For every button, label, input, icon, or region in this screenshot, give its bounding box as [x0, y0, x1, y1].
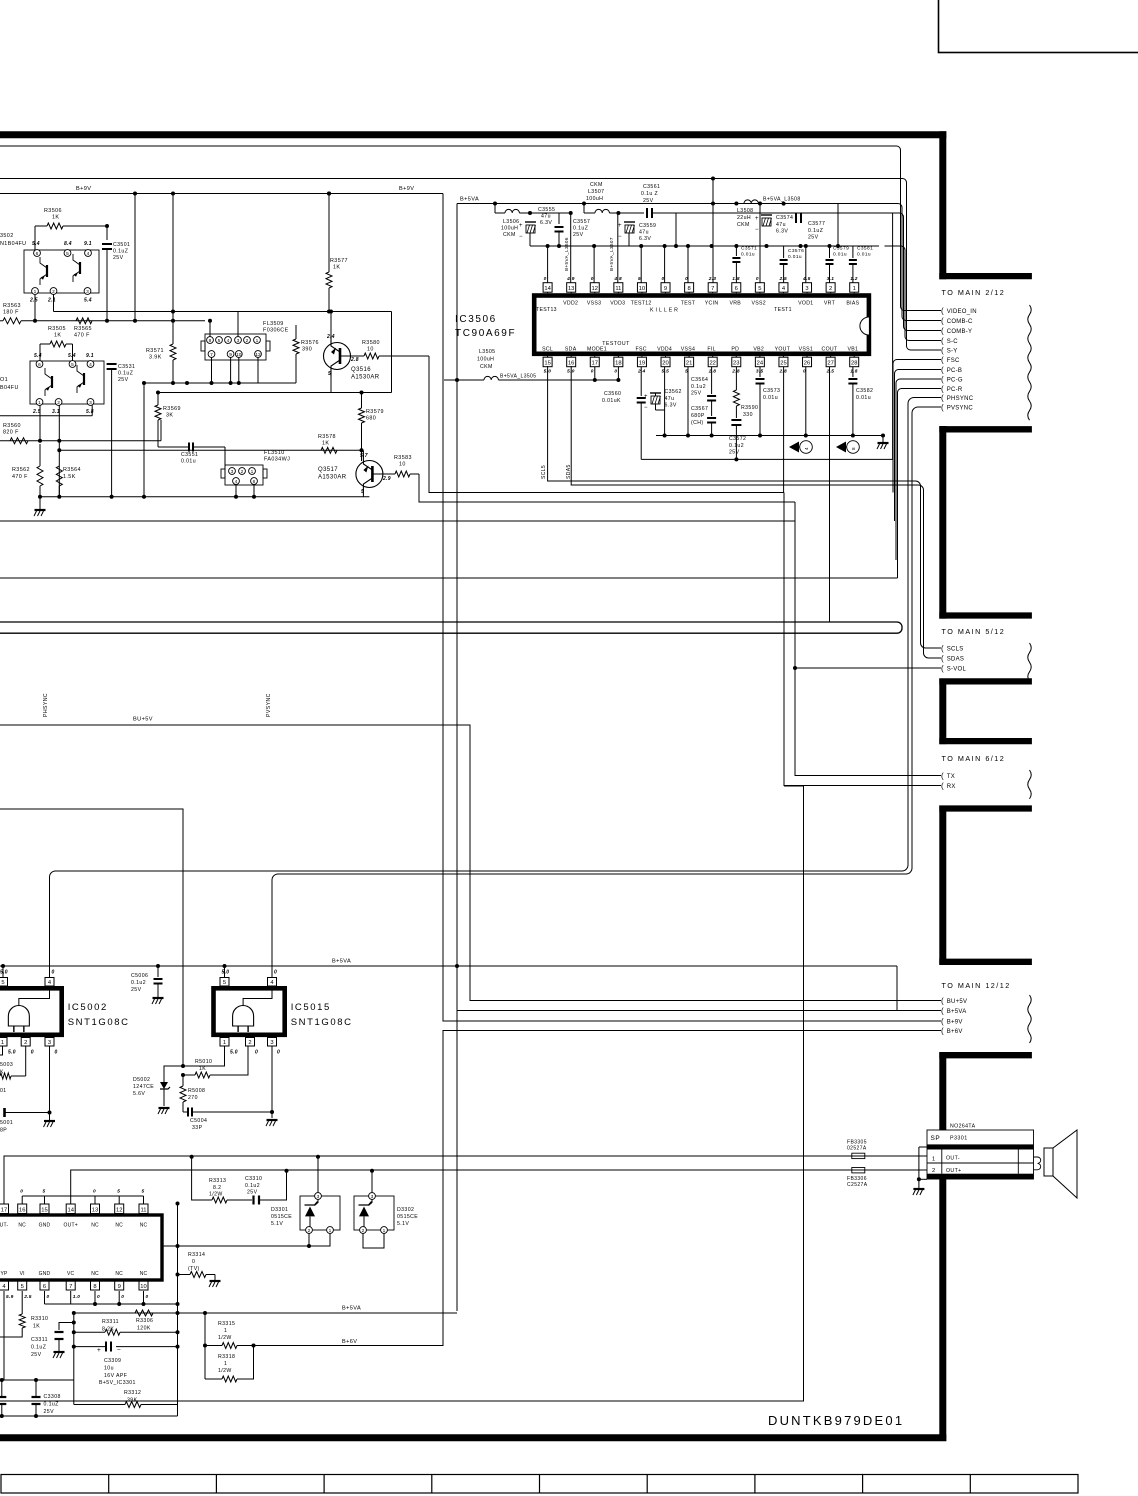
svg-text:VOD1: VOD1 [798, 301, 813, 307]
svg-text:B+5VA: B+5VA [332, 959, 351, 965]
svg-text:(: ( [941, 346, 944, 355]
svg-text:5.4: 5.4 [84, 298, 92, 304]
svg-text:3: 3 [270, 1040, 273, 1046]
svg-text:0: 0 [93, 1189, 96, 1195]
svg-text:NC: NC [91, 1271, 99, 1277]
svg-text:330: 330 [743, 412, 753, 418]
svg-text:270: 270 [188, 1095, 198, 1101]
svg-text:12: 12 [592, 286, 598, 292]
svg-text:R3560: R3560 [3, 423, 21, 429]
svg-text:TO MAIN 6/12: TO MAIN 6/12 [942, 754, 1006, 763]
svg-text:3: 3 [48, 1040, 51, 1046]
svg-text:FSC: FSC [636, 346, 647, 352]
svg-text:17: 17 [1, 1207, 7, 1213]
svg-text:C3309: C3309 [104, 1358, 121, 1364]
svg-text:TEST1: TEST1 [774, 307, 792, 313]
svg-text:2.5: 2.5 [23, 1294, 32, 1300]
svg-text:25V: 25V [247, 1190, 258, 1196]
svg-text:BU+5V: BU+5V [133, 717, 153, 723]
svg-text:2: 2 [246, 338, 249, 344]
svg-text:C3582: C3582 [856, 388, 873, 394]
svg-text:TEST12: TEST12 [631, 301, 652, 307]
svg-text:NC: NC [91, 1223, 99, 1229]
svg-text:C2527A: C2527A [847, 1182, 868, 1188]
svg-text:(CH): (CH) [691, 420, 704, 426]
svg-text:(: ( [941, 664, 944, 673]
svg-text:13: 13 [92, 1207, 98, 1213]
svg-text:OUT-: OUT- [946, 1156, 960, 1162]
svg-text:0.1u2: 0.1u2 [729, 443, 744, 449]
svg-text:3.1: 3.1 [827, 276, 835, 282]
svg-text:3: 3 [237, 338, 240, 344]
svg-text:5: 5 [758, 286, 761, 292]
svg-text:B+5VA_L3508: B+5VA_L3508 [763, 197, 801, 203]
svg-text:SNT1G08C: SNT1G08C [291, 1017, 353, 1028]
svg-text:47u: 47u [541, 214, 551, 220]
svg-text:13: 13 [568, 286, 574, 292]
svg-text:100uH: 100uH [477, 357, 494, 363]
svg-text:B+5VA_L3505: B+5VA_L3505 [500, 374, 536, 380]
svg-text:0: 0 [146, 1294, 149, 1300]
svg-text:3: 3 [86, 289, 89, 295]
svg-text:B+9V: B+9V [947, 1020, 963, 1026]
svg-text:4: 4 [235, 479, 238, 485]
svg-text:1247CE: 1247CE [133, 1084, 154, 1090]
svg-text:1: 1 [223, 1040, 226, 1046]
svg-text:VC: VC [67, 1271, 75, 1277]
svg-text:2.5: 2.5 [29, 298, 38, 304]
svg-text:0.01u: 0.01u [788, 254, 802, 260]
svg-text:01: 01 [0, 1088, 7, 1094]
svg-text:PC-B: PC-B [947, 368, 962, 374]
svg-text:C3560: C3560 [604, 391, 621, 397]
svg-text:5.9: 5.9 [6, 1294, 14, 1300]
svg-text:S-VOL: S-VOL [947, 667, 967, 673]
svg-text:B+5VA_L3506: B+5VA_L3506 [564, 237, 569, 271]
svg-text:9.1: 9.1 [84, 241, 92, 247]
svg-text:R3569: R3569 [163, 406, 181, 412]
svg-text:FIL: FIL [707, 346, 715, 352]
svg-text:25V: 25V [729, 450, 740, 456]
svg-text:3: 3 [317, 1194, 320, 1200]
svg-text:1/2W: 1/2W [218, 1335, 232, 1341]
svg-text:D5002: D5002 [133, 1077, 150, 1083]
svg-text:CKM: CKM [503, 232, 516, 238]
svg-text:R3312: R3312 [124, 1390, 141, 1396]
svg-text:(: ( [941, 317, 944, 326]
svg-text:0.1u2: 0.1u2 [131, 980, 146, 986]
svg-text:R3579: R3579 [366, 409, 384, 415]
svg-text:12: 12 [255, 352, 261, 358]
svg-text:R3562: R3562 [12, 467, 30, 473]
svg-text:C3311: C3311 [31, 1337, 48, 1343]
svg-text:R3577: R3577 [330, 258, 348, 264]
svg-text:2.8: 2.8 [350, 357, 359, 363]
svg-text:NC: NC [140, 1223, 148, 1229]
svg-text:(: ( [941, 1027, 944, 1036]
svg-text:C3555: C3555 [538, 207, 555, 213]
svg-text:1K: 1K [199, 1066, 206, 1072]
svg-text:2: 2 [57, 400, 60, 406]
svg-text:1K: 1K [322, 441, 329, 447]
svg-text:1K: 1K [52, 215, 59, 221]
svg-text:2: 2 [24, 1040, 27, 1046]
svg-text:IC3506: IC3506 [455, 314, 497, 325]
svg-text:VB2: VB2 [753, 346, 764, 352]
svg-text:TX: TX [947, 774, 955, 780]
svg-text:N1B04FU: N1B04FU [0, 241, 26, 247]
svg-text:O1: O1 [0, 377, 8, 383]
svg-text:0: 0 [614, 369, 617, 375]
svg-text:9: 9 [229, 352, 232, 358]
svg-text:5: 5 [218, 338, 221, 344]
svg-text:1: 1 [383, 1228, 386, 1234]
svg-text:R5010: R5010 [195, 1059, 212, 1065]
svg-text:680P: 680P [691, 413, 705, 419]
svg-text:5.0: 5.0 [567, 369, 575, 375]
svg-text:180 F: 180 F [3, 310, 19, 316]
svg-text:(: ( [941, 644, 944, 653]
svg-text:R3505: R3505 [48, 326, 66, 332]
svg-text:COMB-Y: COMB-Y [947, 329, 973, 335]
svg-text:12: 12 [116, 1207, 122, 1213]
svg-text:NC: NC [115, 1271, 123, 1277]
svg-text:D3302: D3302 [397, 1207, 414, 1213]
svg-text:C3579: C3579 [833, 246, 849, 252]
svg-text:VI: VI [20, 1271, 25, 1277]
svg-text:5: 5 [1, 980, 4, 986]
svg-text:(TV): (TV) [188, 1266, 200, 1272]
svg-text:C3572: C3572 [729, 436, 746, 442]
svg-text:PHSYNC: PHSYNC [43, 693, 49, 717]
svg-text:NC: NC [115, 1223, 123, 1229]
svg-text:3.9K: 3.9K [149, 355, 162, 361]
svg-text:47u: 47u [639, 230, 649, 236]
svg-text:0: 0 [277, 1050, 280, 1056]
svg-text:B+5VA: B+5VA [342, 1306, 361, 1312]
svg-text:(: ( [941, 772, 944, 781]
svg-text:B+9V: B+9V [76, 186, 91, 192]
svg-text:0: 0 [55, 1050, 58, 1056]
svg-text:2.8: 2.8 [731, 369, 740, 375]
svg-text:IC5002: IC5002 [68, 1002, 108, 1013]
svg-text:R3310: R3310 [31, 1316, 48, 1322]
svg-text:5.4: 5.4 [34, 353, 42, 359]
svg-text:R3315: R3315 [218, 1321, 235, 1327]
svg-text:4: 4 [87, 251, 90, 257]
svg-text:0.01u: 0.01u [741, 252, 755, 258]
svg-text:(: ( [941, 307, 944, 316]
svg-text:K: K [0, 1070, 4, 1076]
svg-text:14: 14 [544, 286, 551, 292]
svg-text:PC-R: PC-R [947, 387, 963, 393]
svg-text:9: 9 [118, 1284, 121, 1290]
svg-text:C3557: C3557 [573, 219, 590, 225]
svg-text:VRB: VRB [730, 301, 742, 307]
svg-text:PD: PD [731, 346, 739, 352]
svg-text:CKM: CKM [480, 364, 493, 370]
svg-text:6.3V: 6.3V [540, 220, 552, 226]
svg-text:0: 0 [121, 1294, 124, 1300]
svg-text:+: + [519, 223, 523, 229]
svg-text:OUT+: OUT+ [64, 1223, 78, 1229]
svg-text:0.1u Z: 0.1u Z [641, 191, 658, 197]
svg-text:C3567: C3567 [691, 406, 708, 412]
svg-text:VRT: VRT [824, 301, 836, 307]
svg-text:5: 5 [66, 251, 69, 257]
svg-text:CKM: CKM [737, 222, 750, 228]
svg-text:VDD2: VDD2 [563, 301, 578, 307]
svg-text:P3301: P3301 [950, 1136, 968, 1142]
svg-text:120K: 120K [137, 1326, 151, 1332]
svg-text:C5006: C5006 [131, 973, 148, 979]
svg-text:R3311: R3311 [102, 1319, 119, 1325]
svg-text:TO MAIN 2/12: TO MAIN 2/12 [942, 288, 1006, 297]
svg-text:Q3516: Q3516 [351, 367, 371, 373]
svg-text:C3531: C3531 [118, 364, 135, 370]
svg-text:PVSYNC: PVSYNC [947, 406, 974, 412]
svg-text:0: 0 [591, 369, 594, 375]
svg-text:C3308: C3308 [44, 1394, 61, 1400]
svg-text:C3551: C3551 [181, 452, 198, 458]
svg-text:(: ( [941, 385, 944, 394]
svg-text:D3301: D3301 [271, 1207, 288, 1213]
svg-text:YP: YP [0, 1271, 8, 1277]
svg-text:L3508: L3508 [737, 208, 753, 214]
svg-text:5.6V: 5.6V [133, 1091, 145, 1097]
svg-text:1: 1 [329, 1228, 332, 1234]
svg-text:4.5: 4.5 [802, 276, 811, 282]
svg-text:2: 2 [308, 1228, 311, 1234]
svg-text:(: ( [941, 782, 944, 791]
svg-text:0: 0 [274, 970, 277, 976]
svg-text:6: 6 [38, 362, 41, 368]
svg-text:14: 14 [67, 1207, 74, 1213]
svg-text:SCL5: SCL5 [541, 465, 547, 479]
svg-text:BU+5V: BU+5V [947, 999, 967, 1005]
svg-text:7: 7 [69, 1284, 72, 1290]
svg-text:1K: 1K [33, 1324, 40, 1330]
svg-text:(: ( [941, 1017, 944, 1026]
svg-text:0.1u2: 0.1u2 [245, 1183, 260, 1189]
svg-text:(: ( [941, 366, 944, 375]
svg-text:(: ( [941, 327, 944, 336]
svg-text:0.1uZ: 0.1uZ [31, 1345, 46, 1351]
svg-text:TO MAIN 5/12: TO MAIN 5/12 [942, 627, 1006, 636]
svg-text:R3506: R3506 [44, 208, 62, 214]
svg-text:B04FU: B04FU [0, 385, 19, 391]
svg-text:R3576: R3576 [301, 340, 319, 346]
svg-text:19: 19 [639, 361, 645, 367]
svg-text:L3507: L3507 [588, 189, 604, 195]
svg-text:DUNTKB979DE01: DUNTKB979DE01 [768, 1413, 904, 1428]
svg-text:VSS1: VSS1 [799, 346, 813, 352]
svg-text:3.1: 3.1 [52, 409, 60, 415]
svg-text:5.0: 5.0 [230, 1050, 238, 1056]
svg-text:1K: 1K [54, 333, 61, 339]
svg-text:NO264TA: NO264TA [950, 1124, 976, 1130]
svg-text:TEST13: TEST13 [536, 307, 557, 313]
svg-text:NC: NC [140, 1271, 148, 1277]
svg-text:16: 16 [19, 1207, 25, 1213]
svg-text:VSS2: VSS2 [751, 301, 765, 307]
svg-text:0: 0 [255, 1050, 258, 1056]
svg-text:0515CE: 0515CE [271, 1214, 292, 1220]
svg-text:0.01u: 0.01u [763, 395, 778, 401]
svg-text:5.1V: 5.1V [271, 1221, 283, 1227]
svg-text:5.0: 5.0 [544, 369, 552, 375]
svg-text:(: ( [941, 997, 944, 1006]
svg-text:GND: GND [39, 1271, 51, 1277]
svg-text:YOUT: YOUT [775, 346, 791, 352]
svg-text:2.1: 2.1 [47, 298, 56, 304]
svg-text:0.01u: 0.01u [833, 252, 847, 258]
svg-text:TC90A69F: TC90A69F [455, 328, 516, 339]
svg-text:1K: 1K [333, 265, 340, 271]
svg-text:1.0: 1.0 [73, 1294, 81, 1300]
svg-text:2.9: 2.9 [382, 476, 391, 482]
svg-text:C3573: C3573 [763, 388, 780, 394]
svg-text:20: 20 [662, 361, 668, 367]
svg-text:C3577: C3577 [808, 221, 825, 227]
svg-text:L3505: L3505 [479, 349, 495, 355]
svg-text:0: 0 [52, 970, 55, 976]
svg-text:8: 8 [851, 447, 856, 450]
svg-text:5: 5 [361, 489, 364, 495]
svg-text:4: 4 [89, 362, 92, 368]
svg-text:16V APF: 16V APF [104, 1373, 127, 1379]
svg-text:100uH: 100uH [501, 226, 518, 232]
svg-text:VB1: VB1 [848, 346, 859, 352]
svg-text:FL3510: FL3510 [264, 450, 285, 456]
svg-text:MODE1: MODE1 [587, 346, 607, 352]
svg-text:390: 390 [302, 347, 312, 353]
svg-text:B+5VA: B+5VA [947, 1009, 967, 1015]
svg-text:15: 15 [41, 1207, 47, 1213]
svg-text:4: 4 [227, 338, 230, 344]
svg-text:5001: 5001 [0, 1120, 13, 1126]
svg-text:VSS3: VSS3 [587, 301, 601, 307]
svg-text:A1530AR: A1530AR [351, 375, 380, 381]
svg-text:27: 27 [827, 361, 833, 367]
svg-text:02527A: 02527A [847, 1146, 867, 1152]
svg-text:(: ( [941, 403, 944, 412]
svg-text:0.1uZ: 0.1uZ [573, 226, 588, 232]
svg-text:0515CE: 0515CE [397, 1214, 418, 1220]
svg-text:B+5VA: B+5VA [460, 197, 479, 203]
svg-text:0.1uZ: 0.1uZ [118, 371, 133, 377]
svg-text:5: 5 [21, 1284, 24, 1290]
svg-text:8P: 8P [0, 1128, 7, 1134]
svg-text:16: 16 [568, 361, 574, 367]
svg-text:IC5015: IC5015 [291, 1002, 331, 1013]
svg-text:C3581: C3581 [857, 246, 873, 252]
svg-text:25V: 25V [691, 391, 702, 397]
svg-text:0.1uZ: 0.1uZ [113, 249, 128, 255]
svg-text:25V: 25V [573, 232, 584, 238]
svg-text:0.1uZ: 0.1uZ [808, 228, 823, 234]
svg-text:SP: SP [931, 1135, 941, 1142]
svg-text:8: 8 [687, 286, 690, 292]
svg-text:SDA5: SDA5 [566, 464, 572, 479]
svg-text:YCIN: YCIN [705, 301, 719, 307]
svg-text:5.0: 5.0 [222, 970, 230, 976]
svg-text:6.3V: 6.3V [776, 229, 788, 235]
svg-text:R3583: R3583 [394, 455, 412, 461]
svg-text:C3310: C3310 [245, 1176, 262, 1182]
svg-text:SDA: SDA [565, 346, 577, 352]
svg-text:PHSYNC: PHSYNC [947, 396, 974, 402]
svg-text:25: 25 [780, 361, 786, 367]
svg-text:6.3V: 6.3V [639, 236, 651, 242]
svg-text:0.01u: 0.01u [181, 459, 196, 465]
svg-text:2.4: 2.4 [326, 334, 335, 340]
svg-text:5.7: 5.7 [360, 453, 368, 459]
svg-text:R3590: R3590 [741, 405, 758, 411]
svg-text:R3571: R3571 [146, 348, 164, 354]
svg-text:15: 15 [544, 361, 550, 367]
svg-text:KILLER: KILLER [650, 308, 680, 314]
svg-text:FA034WJ: FA034WJ [264, 457, 290, 463]
svg-text:8.2: 8.2 [213, 1185, 221, 1191]
svg-text:3: 3 [231, 469, 234, 475]
svg-text:2.5: 2.5 [778, 276, 787, 282]
svg-text:7: 7 [711, 286, 714, 292]
svg-text:(: ( [941, 375, 944, 384]
svg-text:0: 0 [544, 276, 547, 282]
svg-text:2: 2 [241, 469, 244, 475]
svg-text:3K: 3K [166, 413, 173, 419]
svg-text:OUT+: OUT+ [946, 1168, 962, 1174]
svg-text:−: − [519, 234, 523, 240]
svg-text:1/2W: 1/2W [218, 1368, 232, 1374]
svg-text:S-Y: S-Y [947, 349, 958, 355]
svg-text:(: ( [941, 1007, 944, 1016]
svg-text:6: 6 [253, 479, 256, 485]
svg-text:1: 1 [256, 338, 259, 344]
svg-text:+: + [97, 1347, 101, 1354]
svg-text:5.4: 5.4 [68, 353, 76, 359]
svg-text:24: 24 [757, 361, 764, 367]
svg-text:(: ( [941, 337, 944, 346]
svg-text:R3578: R3578 [318, 434, 336, 440]
svg-text:RX: RX [947, 784, 956, 790]
svg-text:2: 2 [829, 286, 832, 292]
svg-text:NC: NC [18, 1223, 26, 1229]
svg-text:−: − [644, 405, 648, 411]
svg-text:1: 1 [932, 1157, 936, 1163]
svg-text:(: ( [941, 394, 944, 403]
svg-text:8: 8 [93, 1284, 96, 1290]
svg-text:C3561: C3561 [643, 184, 660, 190]
svg-text:COUT: COUT [822, 346, 838, 352]
svg-text:SNT1G08C: SNT1G08C [68, 1017, 130, 1028]
svg-text:1.5K: 1.5K [63, 474, 76, 480]
svg-text:R3580: R3580 [362, 340, 380, 346]
svg-text:−: − [117, 1347, 121, 1354]
svg-text:5: 5 [142, 1189, 145, 1195]
svg-text:8.4: 8.4 [64, 241, 72, 247]
svg-text:8: 8 [209, 338, 212, 344]
svg-text:11: 11 [615, 286, 621, 292]
svg-text:5: 5 [223, 980, 226, 986]
svg-text:A1530AR: A1530AR [318, 475, 347, 481]
svg-text:FSC: FSC [947, 358, 960, 364]
svg-text:CKM: CKM [590, 182, 603, 188]
svg-text:0: 0 [591, 276, 594, 282]
svg-text:3502: 3502 [0, 233, 14, 239]
svg-text:0.01uK: 0.01uK [602, 398, 621, 404]
